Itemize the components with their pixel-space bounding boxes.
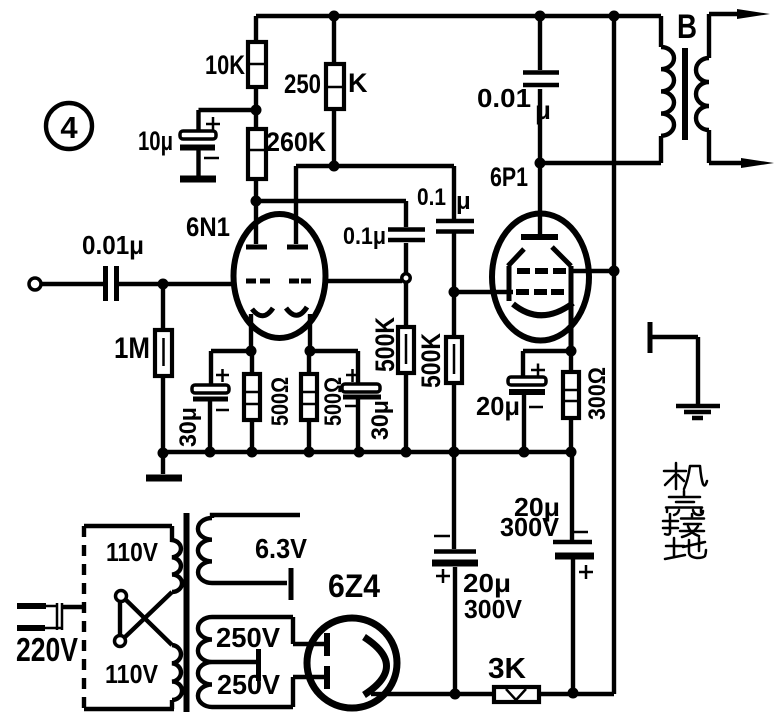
resistor R 1M	[114, 284, 172, 452]
wire cathode 1 lead	[249, 314, 253, 351]
svg-text:0.1μ: 0.1μ	[343, 223, 386, 250]
tube 6Z4 envelope	[307, 568, 397, 708]
node screen junction on B+ rail	[609, 266, 620, 277]
transformer B primary winding	[661, 16, 674, 163]
wire grid 6P1	[454, 290, 513, 294]
node top bus plate line	[535, 11, 546, 22]
node filter2 bottom junction	[568, 688, 579, 699]
label chassis-ground chinese 壳	[666, 491, 703, 515]
tube 6Z4 plate 1	[324, 633, 330, 656]
node input grid junction	[158, 279, 169, 290]
node top bus at 250K	[329, 11, 340, 22]
capacitor C 10u electrolytic	[138, 110, 251, 176]
svg-text:500K: 500K	[416, 333, 446, 388]
capacitor C 20u cathode bypass	[476, 351, 571, 452]
capacitor C 20u/300V filter 2	[500, 452, 594, 693]
svg-text:110V: 110V	[106, 537, 159, 567]
svg-text:6N1: 6N1	[186, 212, 230, 242]
node plate junction y163	[535, 158, 546, 169]
resistor R 500K right	[416, 292, 462, 452]
node ground bus right end	[566, 447, 577, 458]
label chassis-ground chinese 地	[665, 538, 706, 559]
node ground 20u bypass	[519, 447, 530, 458]
wire 250V center tap	[212, 660, 256, 664]
svg-text:250: 250	[284, 69, 321, 99]
power transformer 250V winding	[198, 617, 212, 707]
node ground 500ohm right	[304, 447, 315, 458]
label chassis-ground chinese 机	[664, 463, 707, 489]
capacitor C 0.01u across primary	[477, 16, 559, 163]
tube 6Z4 cathode arc	[364, 637, 387, 695]
svg-text:220V: 220V	[16, 631, 78, 668]
tube 6P1 envelope	[490, 162, 589, 341]
capacitor C 20u/300V filter 1	[432, 452, 523, 695]
svg-text:30μ: 30μ	[175, 407, 202, 447]
wire 250V top lead to plate	[212, 617, 324, 644]
svg-text:20μ: 20μ	[476, 391, 520, 421]
svg-text:300Ω: 300Ω	[584, 367, 611, 420]
node cathode 6P1	[566, 346, 577, 357]
tube 6P1 screen grid dashes	[517, 268, 566, 274]
svg-text:300V: 300V	[464, 594, 523, 624]
tube 6N1 cathode 2 arc	[286, 307, 307, 315]
resistor R 260K	[248, 127, 326, 201]
transformer B core	[682, 48, 688, 140]
tube 6P1 plate	[521, 163, 558, 237]
power transformer core	[184, 513, 190, 712]
node grid junction 6P1	[449, 287, 460, 298]
svg-text:500K: 500K	[370, 317, 400, 372]
node cathode 1	[246, 346, 257, 357]
svg-text:μ: μ	[456, 188, 471, 215]
resistor R 500ohm right	[301, 351, 347, 452]
power transformer dashed primary box	[84, 526, 174, 709]
wire secondary output top with arrow	[709, 9, 770, 19]
resistor R 500K left	[370, 282, 414, 452]
svg-text:300V: 300V	[500, 512, 560, 542]
wire grid2 to coupling node	[325, 279, 402, 283]
svg-text:B: B	[677, 8, 697, 46]
svg-text:μ: μ	[535, 95, 551, 125]
tube 6P1 beam plate right	[552, 247, 571, 266]
node top bus B+ rail	[609, 11, 620, 22]
svg-text:500Ω: 500Ω	[267, 377, 294, 426]
capacitor C 30u left electrolytic	[175, 351, 251, 452]
svg-text:10μ: 10μ	[138, 126, 173, 156]
capacitor C 30u right electrolytic	[310, 351, 394, 452]
tube 6N1 grid 1 dashes	[246, 279, 270, 284]
node filter1 bottom junction	[450, 689, 461, 700]
svg-text:6Z4: 6Z4	[328, 568, 380, 604]
resistor R 250K	[284, 16, 368, 166]
svg-text:4: 4	[60, 110, 78, 145]
wire B+ vertical rail right	[612, 16, 616, 694]
wire 250V bottom lead to plate	[212, 677, 324, 707]
wire 6Z4 cathode out	[371, 692, 384, 696]
figure number circle 4	[46, 103, 92, 149]
power transformer primary winding 110V bottom	[172, 645, 182, 709]
wire plate row to transformer	[540, 161, 661, 165]
wire cathode 2 lead	[308, 314, 312, 351]
chassis terminal center tap	[256, 649, 261, 681]
label chassis-ground chinese 接	[663, 514, 704, 537]
resistor R 500ohm left	[244, 351, 294, 452]
node B junction 260K/plate1/coupling	[251, 196, 262, 207]
tube 6P1 cathode arc	[513, 303, 573, 315]
tube 6N1 plate 2	[287, 166, 308, 247]
svg-text:260K: 260K	[266, 127, 326, 157]
resistor R 3K	[488, 653, 539, 702]
capacitor C 0.1u left coupling	[343, 201, 425, 273]
node ground 500K right	[449, 447, 460, 458]
resistor R 300ohm	[563, 351, 611, 452]
voltage selector switch cross	[115, 591, 173, 647]
tube 6P1 control grid dashes	[516, 289, 564, 295]
tube 6P1 beam plate left	[508, 249, 524, 301]
tube 6N1 plate 1	[246, 201, 267, 247]
node ground 500K left	[401, 447, 412, 458]
node ground 30u right	[354, 447, 365, 458]
svg-text:110V: 110V	[105, 659, 159, 689]
chassis terminal 6.3V	[289, 568, 294, 600]
svg-text:250V: 250V	[217, 669, 280, 700]
node junction 250K bottom	[329, 161, 340, 172]
input terminal	[29, 278, 41, 290]
tube 6N1 grid 2 dashes	[289, 279, 311, 284]
tube 6N1 cathode 1 arc	[252, 308, 273, 316]
earth ground symbol right	[676, 406, 720, 418]
ground bar of 10u	[180, 176, 216, 183]
svg-text:1M: 1M	[114, 332, 150, 365]
wire plate2 row y166	[296, 164, 454, 168]
node open circle grid2 junction	[402, 274, 410, 282]
power transformer primary winding 110V top	[172, 526, 182, 592]
wire B+ bottom rail	[384, 692, 614, 696]
svg-text:10K: 10K	[205, 50, 245, 80]
node ground 500ohm left	[247, 447, 258, 458]
power transformer 6.3V winding	[198, 515, 300, 583]
svg-text:250V: 250V	[216, 622, 280, 653]
capacitor C 0.1u right coupling	[417, 166, 474, 292]
svg-text:K: K	[348, 68, 368, 98]
transformer B secondary winding	[696, 14, 709, 163]
svg-text:0.01μ: 0.01μ	[82, 230, 144, 260]
wire ground bus	[163, 450, 571, 454]
svg-text:6.3V: 6.3V	[255, 533, 307, 564]
capacitor C 0.01u input	[41, 230, 234, 301]
svg-text:30μ: 30μ	[367, 400, 394, 440]
node A junction 10K/260K/10u	[251, 105, 262, 116]
node ground of 1M	[158, 448, 169, 459]
ground symbol left	[161, 453, 165, 474]
svg-text:3K: 3K	[488, 653, 526, 685]
wire top B+ bus	[256, 14, 661, 18]
wire screen to B+ rail	[570, 269, 614, 273]
wire 6P1 cathode lead	[569, 266, 574, 351]
chassis terminal top right	[650, 322, 698, 404]
tube 6N1 envelope	[186, 212, 326, 338]
mains plug 220V	[17, 603, 84, 630]
svg-text:0.01: 0.01	[477, 83, 531, 113]
resistor R 10K	[205, 16, 266, 129]
wire secondary output bottom with arrow	[709, 158, 774, 168]
node ground 30u left	[205, 447, 216, 458]
node cathode 2	[305, 346, 316, 357]
wire plate1 row y201	[256, 199, 406, 203]
tube 6Z4 plate 2	[324, 666, 330, 689]
svg-text:0.1: 0.1	[417, 184, 446, 211]
svg-text:6P1: 6P1	[490, 162, 528, 192]
